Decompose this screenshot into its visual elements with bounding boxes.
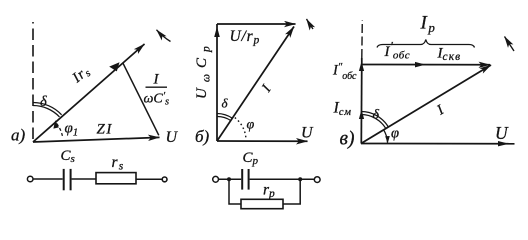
svg-text:I: I <box>153 72 160 88</box>
svg-text:а): а) <box>11 126 26 145</box>
arrowhead I''abs on axis <box>359 62 364 72</box>
angle phi arc with arrowhead (v) <box>384 130 388 143</box>
resistor rp <box>241 199 283 208</box>
vector I (v) <box>361 65 491 144</box>
arrowhead Icm on axis <box>359 110 364 120</box>
wire <box>219 178 242 180</box>
rotation direction arrow (v) <box>505 37 515 52</box>
vector I rs (a) with mid arrowhead <box>33 44 145 142</box>
svg-text:φ: φ <box>247 118 255 133</box>
svg-text:б): б) <box>195 127 210 146</box>
rotation direction arrow (b) <box>307 19 314 29</box>
svg-text:Iр: Iр <box>420 13 436 36</box>
vertical axis UwCp (b) with arrowhead <box>216 24 218 141</box>
angle delta double arc (a) <box>33 106 60 117</box>
capacitor Cp <box>242 169 248 190</box>
rotation direction arrow (a) <box>157 30 171 42</box>
terminal left (a) <box>27 176 33 182</box>
svg-text:Cs: Cs <box>61 148 75 165</box>
vector U = ZI (a) <box>33 137 160 142</box>
capacitor Cs <box>64 169 71 190</box>
svg-text:I: I <box>433 102 447 119</box>
svg-text:U: U <box>495 123 509 143</box>
svg-text:в): в) <box>340 129 355 150</box>
wire <box>136 178 162 180</box>
capacitor voltage line I/wCs (a) <box>123 63 159 136</box>
angle phi dotted arc (b) <box>235 118 246 140</box>
svg-text:φ: φ <box>391 126 399 142</box>
svg-text:Iсм: Iсм <box>333 100 352 119</box>
svg-text:I: I <box>259 82 275 96</box>
svg-text:δ: δ <box>222 96 229 111</box>
wire bottom branch left <box>229 179 241 204</box>
svg-text:I′обс: I′обс <box>384 39 411 62</box>
vector I (b) <box>217 27 294 142</box>
dashed vertical axis (a) <box>32 22 34 139</box>
svg-text:Cp: Cp <box>243 150 259 167</box>
svg-text:ZI: ZI <box>97 122 113 138</box>
wire <box>33 178 63 180</box>
svg-text:δ: δ <box>373 108 380 123</box>
vector U/rp (b) <box>217 23 296 25</box>
vector U axis (v) <box>361 143 515 145</box>
svg-text:φ1: φ1 <box>65 121 79 139</box>
svg-text:UωCp: UωCp <box>194 40 213 99</box>
wire <box>250 178 315 180</box>
resistor rs <box>96 173 136 184</box>
wire bottom branch right <box>283 179 300 204</box>
svg-text:U/rp: U/rp <box>230 28 261 47</box>
svg-text:rs: rs <box>112 154 125 173</box>
label fraction I/wCs <box>144 72 170 108</box>
svg-text:Irs: Irs <box>69 63 94 88</box>
junction dot right <box>298 177 302 181</box>
vertical axis (v) <box>360 58 363 144</box>
svg-text:U: U <box>301 125 314 142</box>
brace over Ip <box>377 40 475 48</box>
svg-text:δ: δ <box>40 94 47 110</box>
svg-text:I″обс: I″обс <box>332 62 357 82</box>
wire <box>72 178 96 180</box>
angle delta double arc (v) <box>361 114 386 128</box>
angle phi1 arc with arrowhead (a) <box>57 124 63 139</box>
vector U axis (b) <box>217 140 308 142</box>
svg-text:U: U <box>166 129 179 146</box>
terminal right (a) <box>162 177 167 182</box>
horizontal component line I'abs + Iskv (v) <box>362 64 491 66</box>
svg-text:ωC′s: ωC′s <box>144 90 170 108</box>
terminal right (b) <box>314 177 320 183</box>
svg-text:Iскв: Iскв <box>437 46 462 64</box>
svg-text:rp: rp <box>263 182 275 201</box>
terminal left (b) <box>213 176 219 182</box>
junction dot left <box>227 177 231 181</box>
angle delta arc (b) <box>217 116 231 120</box>
